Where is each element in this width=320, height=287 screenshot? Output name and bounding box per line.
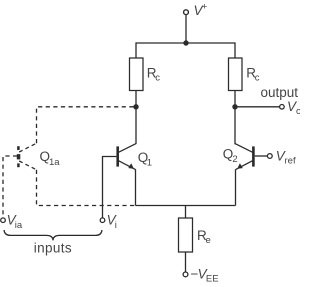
svg-text:inputs: inputs bbox=[34, 240, 72, 255]
wire V+ down to top rail bbox=[185, 15, 187, 43]
wire right collector bbox=[234, 91, 236, 145]
brace inputs bbox=[4, 230, 102, 240]
svg-text:2: 2 bbox=[232, 154, 237, 165]
terminal Via bbox=[1, 218, 6, 223]
junction top rail bbox=[183, 40, 188, 45]
wire output bbox=[235, 106, 280, 108]
dashed alternative input transistor network bbox=[3, 107, 136, 218]
transistor Q1a (dashed) bbox=[17, 143, 37, 170]
terminal Vref bbox=[267, 154, 272, 159]
wire Q1a emitter (dashed) bbox=[37, 170, 136, 206]
wire left rail drop bbox=[135, 42, 137, 58]
wire Q2 emitter down bbox=[235, 169, 237, 205]
svg-text:1a: 1a bbox=[49, 157, 60, 168]
svg-text:e: e bbox=[206, 235, 211, 246]
wire left collector bbox=[135, 91, 137, 144]
svg-text:EE: EE bbox=[206, 274, 219, 285]
junction output node bbox=[232, 104, 237, 109]
transistor Q2 bbox=[235, 143, 254, 169]
svg-text:o: o bbox=[296, 106, 300, 117]
wire right rail drop bbox=[234, 42, 236, 58]
wire Q1a collector (dashed) bbox=[37, 107, 134, 143]
wire Q1 base bbox=[103, 157, 117, 218]
svg-text:c: c bbox=[255, 73, 260, 84]
wire Q2 base bbox=[255, 155, 268, 157]
wire Q1a base (dashed) bbox=[3, 156, 17, 218]
wire Re bottom bbox=[185, 252, 187, 272]
svg-text:output: output bbox=[261, 85, 299, 100]
svg-text:ia: ia bbox=[15, 220, 23, 231]
wire emitter bus bbox=[136, 205, 236, 207]
wire Re top bbox=[185, 206, 187, 219]
svg-text:+: + bbox=[202, 2, 208, 13]
svg-text:i: i bbox=[115, 220, 117, 231]
wire Q1 emitter down bbox=[135, 169, 137, 205]
terminal Vi bbox=[100, 218, 105, 223]
terminal -VEE bbox=[183, 272, 188, 277]
svg-text:c: c bbox=[155, 73, 160, 84]
resistor Rc left bbox=[130, 58, 144, 91]
svg-text:1: 1 bbox=[147, 158, 152, 169]
resistor Rc right bbox=[229, 58, 243, 91]
svg-text:ref: ref bbox=[285, 155, 296, 166]
resistor Re bbox=[179, 218, 193, 252]
wire top rail bbox=[136, 42, 235, 44]
transistor Q1 bbox=[118, 143, 137, 169]
terminal Vo bbox=[280, 105, 285, 110]
terminal V+ bbox=[184, 10, 189, 15]
junction left collector node bbox=[133, 104, 138, 109]
